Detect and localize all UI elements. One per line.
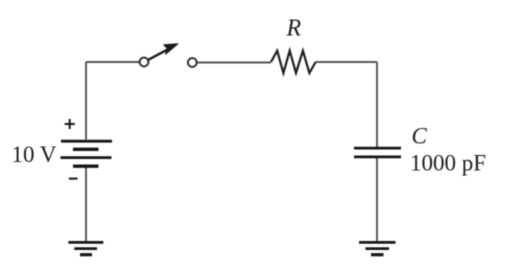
svg-text:1000 pF: 1000 pF (410, 151, 486, 176)
svg-text:C: C (412, 124, 428, 149)
svg-text:R: R (286, 16, 302, 42)
svg-text:10 V: 10 V (12, 142, 57, 167)
